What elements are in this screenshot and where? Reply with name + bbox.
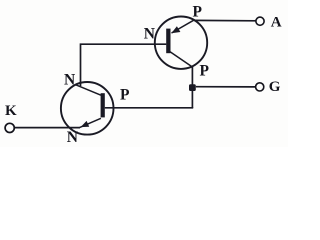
wire Q1 emitter to A terminal (194, 19, 256, 21)
wire node to G terminal (196, 86, 256, 88)
svg-text:N: N (144, 26, 155, 43)
transistor Q1 emitter line (172, 20, 195, 33)
terminal G circle (256, 83, 264, 91)
transistor Q1 (PNP) circle (155, 17, 207, 69)
wire Q2 base to node (105, 107, 193, 109)
svg-text:P: P (200, 62, 210, 79)
transistor Q2 emitter arrow (81, 121, 90, 127)
transistor Q1 emitter arrow (171, 26, 180, 33)
terminal A circle (256, 17, 264, 25)
transistor Q2 collector line (76, 85, 101, 95)
svg-text:P: P (193, 3, 203, 20)
junction node dot (189, 84, 196, 91)
wire Q1 collector down to node G (191, 67, 193, 109)
terminal K circle (5, 123, 14, 132)
transistor Q2 (NPN) circle (61, 82, 114, 135)
svg-text:A: A (271, 14, 282, 30)
svg-text:N: N (67, 129, 78, 146)
transistor Q1 collector line (169, 51, 193, 67)
svg-text:N: N (64, 71, 75, 88)
svg-text:G: G (269, 79, 281, 95)
svg-text:K: K (5, 103, 17, 119)
transistor Q1 base bar (166, 29, 170, 54)
transistor Q2 base bar (101, 93, 105, 117)
wire K to Q2 emitter (14, 127, 80, 129)
transistor Q2 emitter line (80, 118, 101, 127)
svg-text:P: P (120, 86, 130, 103)
wire Q2 collector up and right to Q1 base (81, 44, 167, 86)
